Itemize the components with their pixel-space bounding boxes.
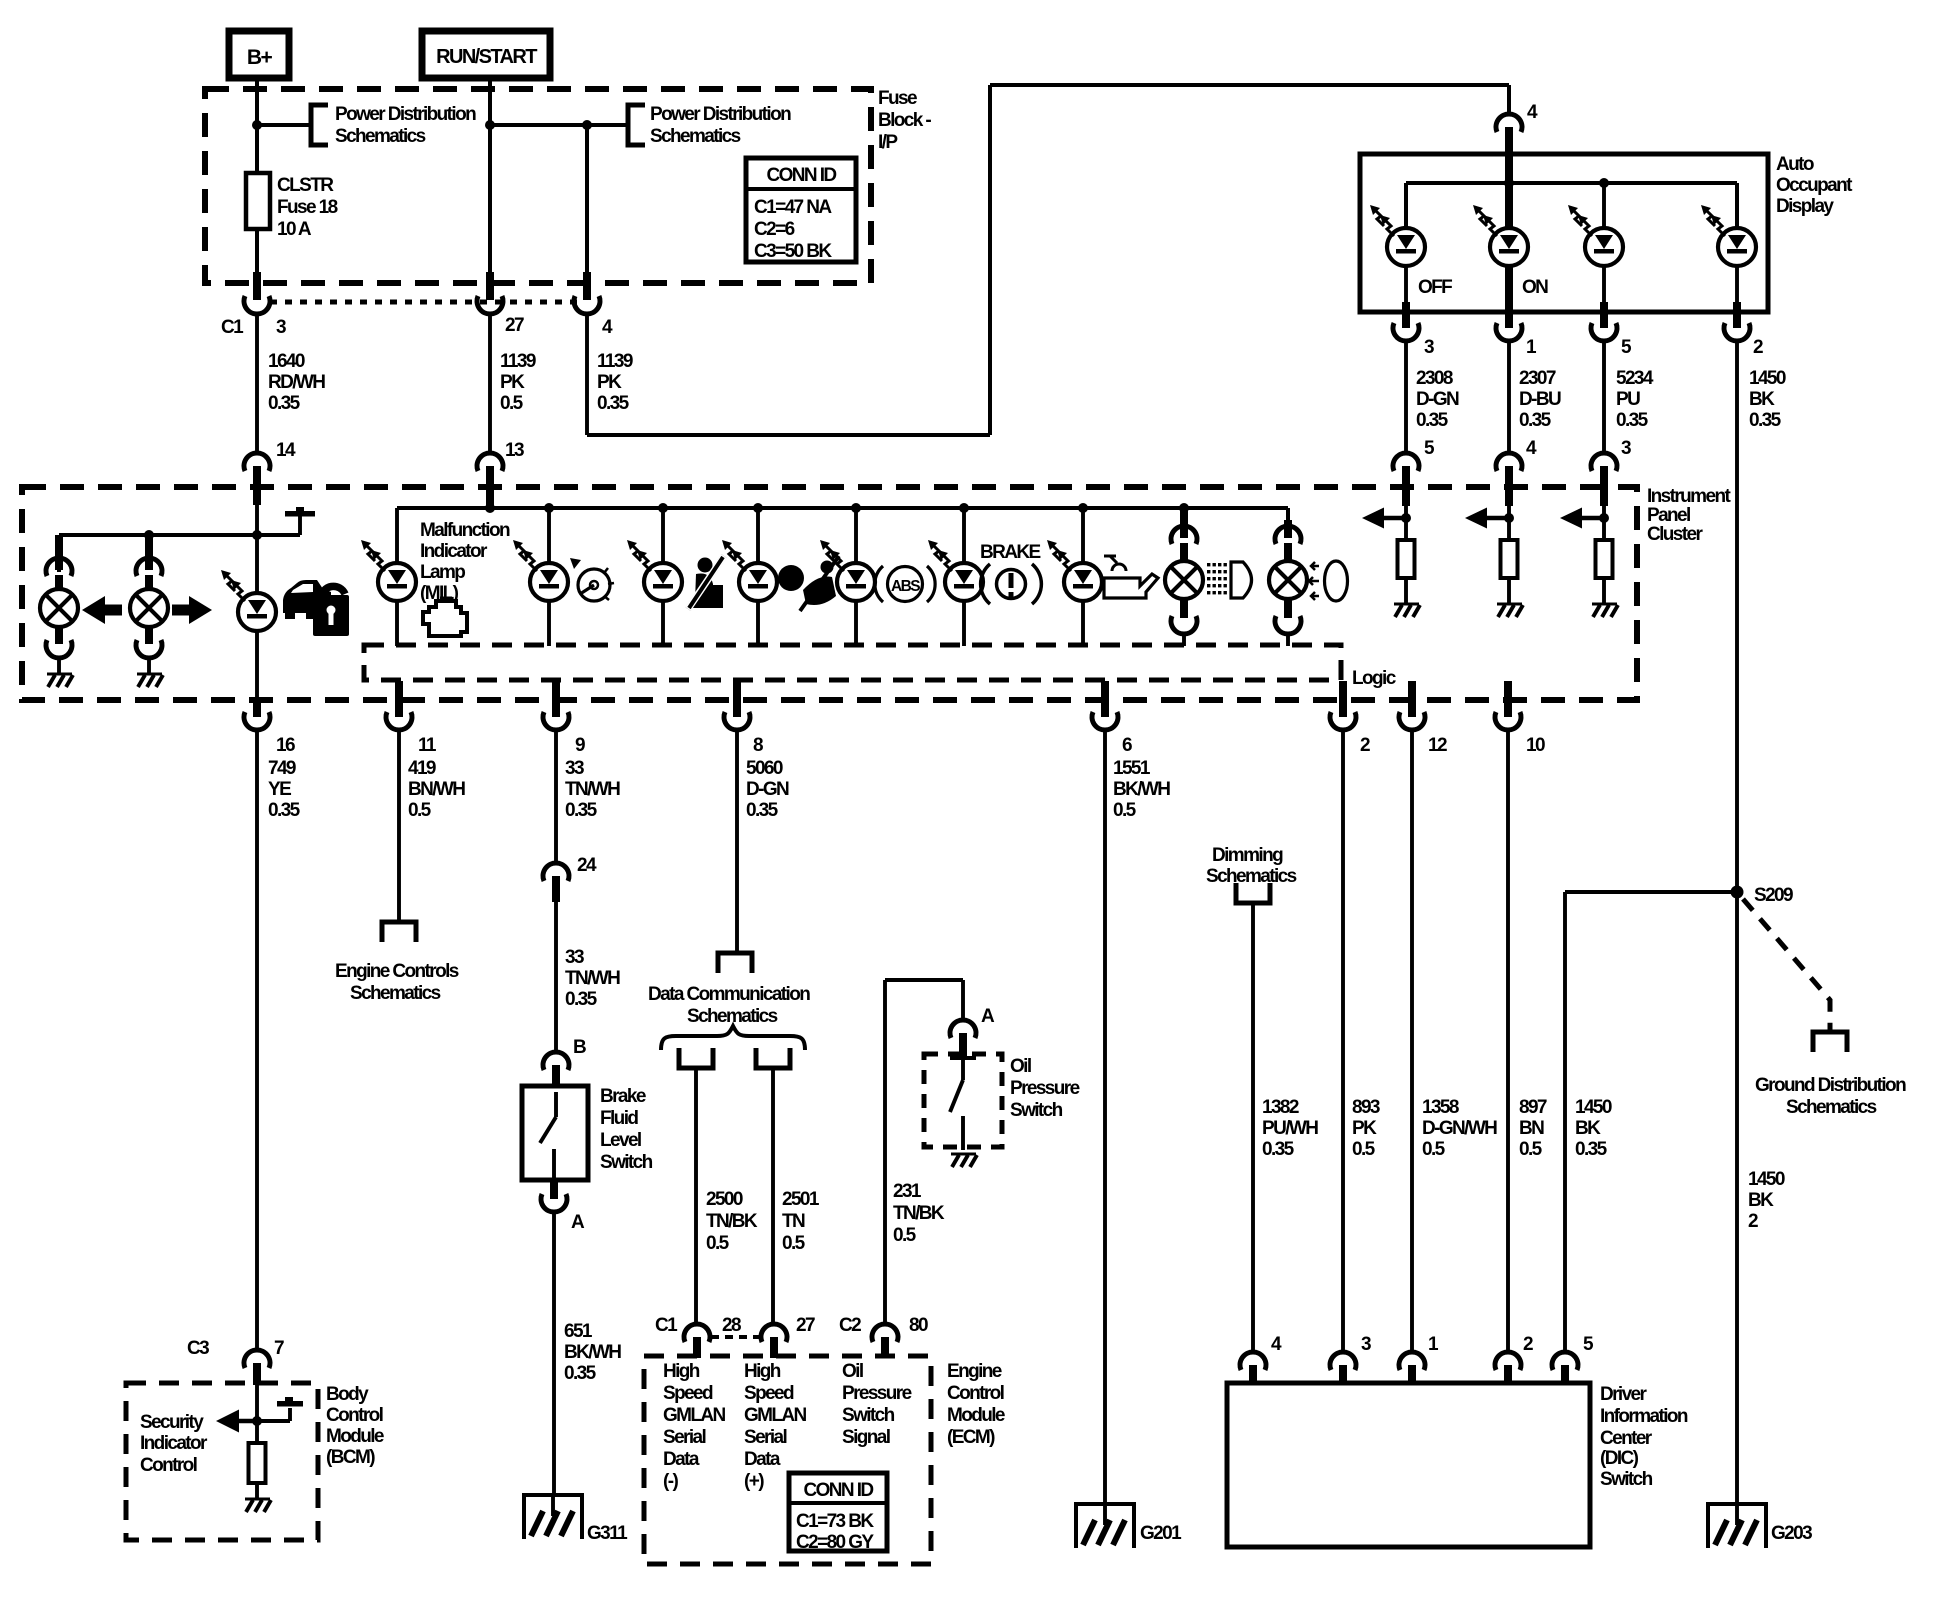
connector C1 pin 3 <box>221 296 286 338</box>
svg-text:0.35: 0.35 <box>1416 410 1449 431</box>
svg-text:2: 2 <box>1753 337 1763 358</box>
svg-text:Fluid: Fluid <box>600 1108 638 1129</box>
wire label 1450 BK 2 <box>1748 1169 1785 1232</box>
svg-text:3: 3 <box>1361 1334 1371 1355</box>
svg-text:C1=47 NA: C1=47 NA <box>754 197 832 218</box>
label Security Indicator Control <box>140 1412 208 1476</box>
svg-text:Body: Body <box>326 1384 369 1405</box>
off-page reference Dimming Schematics <box>1206 845 1297 903</box>
airbag icon <box>778 556 839 611</box>
svg-text:0.5: 0.5 <box>408 800 432 821</box>
cluster lamp feed wire <box>59 535 257 572</box>
main security wire through cluster pin 16 <box>244 697 295 1352</box>
svg-text:1640: 1640 <box>268 351 305 372</box>
svg-text:Indicator: Indicator <box>420 541 488 562</box>
connector C3 pin 7 BCM <box>244 1350 270 1385</box>
logic dashed box <box>364 645 1341 680</box>
security indicator LED <box>221 505 276 698</box>
svg-text:1358: 1358 <box>1422 1097 1459 1118</box>
connector pin 4 auto occupant display <box>1496 102 1538 156</box>
svg-text:C1: C1 <box>655 1315 678 1336</box>
svg-text:0.35: 0.35 <box>1616 410 1649 431</box>
svg-text:2308: 2308 <box>1416 368 1453 389</box>
svg-text:Schematics: Schematics <box>1786 1097 1877 1118</box>
svg-text:24: 24 <box>577 855 597 876</box>
label Driver Information Center DIC Switch <box>1600 1384 1688 1490</box>
svg-text:PK: PK <box>597 372 622 393</box>
svg-text:80: 80 <box>909 1315 928 1336</box>
svg-text:Signal: Signal <box>842 1427 890 1448</box>
ECM connector gang dashes <box>711 1335 760 1339</box>
wire label 5060 D-GN 0.35 <box>746 758 789 821</box>
svg-text:ON: ON <box>1522 277 1548 298</box>
svg-text:RD/WH: RD/WH <box>268 372 325 393</box>
svg-text:Control: Control <box>140 1455 197 1476</box>
connector pin 4 <box>574 272 613 338</box>
svg-text:G311: G311 <box>587 1523 628 1544</box>
engine control module dashed box <box>644 1356 931 1564</box>
svg-text:G203: G203 <box>1771 1523 1812 1544</box>
svg-text:TN: TN <box>782 1211 805 1232</box>
svg-text:Oil: Oil <box>842 1361 863 1382</box>
svg-text:10 A: 10 A <box>277 219 312 240</box>
svg-text:C3: C3 <box>187 1338 209 1359</box>
svg-text:0.5: 0.5 <box>893 1225 917 1246</box>
wire label 1551 BK/WH 0.5 <box>1113 758 1170 821</box>
svg-text:PK: PK <box>500 372 525 393</box>
wire 1139 PK 0.35 route to auto occupant display <box>587 85 1509 435</box>
wire third output of fuse block <box>585 125 589 274</box>
svg-text:I/P: I/P <box>878 132 898 153</box>
cluster pin 6 connector <box>1092 681 1132 756</box>
svg-text:S209: S209 <box>1754 885 1793 906</box>
LED seat belt <box>627 508 682 646</box>
svg-text:BN: BN <box>1519 1118 1544 1139</box>
svg-text:0.35: 0.35 <box>564 1363 597 1384</box>
svg-text:0.5: 0.5 <box>1422 1139 1446 1160</box>
driver information center switch box <box>1227 1383 1590 1547</box>
svg-text:(+): (+) <box>744 1471 764 1492</box>
svg-text:8: 8 <box>753 735 763 756</box>
splice S209 <box>1731 885 1794 906</box>
svg-text:C2=6: C2=6 <box>754 219 795 240</box>
LED indicator lamp 3 <box>1568 205 1623 266</box>
wire label 897 BN 0.5 <box>1519 1097 1547 1160</box>
connector DIC pin 3 <box>1330 1334 1371 1385</box>
svg-text:(DIC): (DIC) <box>1600 1448 1639 1469</box>
junction node on B+ wire <box>252 120 262 130</box>
svg-text:1450: 1450 <box>1749 368 1786 389</box>
wire label 749 YE 0.35 <box>268 758 301 821</box>
cluster pin 8 connector <box>724 681 763 756</box>
arrow dimming 5 <box>1362 508 1406 529</box>
wire from B+ down to fuse <box>255 78 259 173</box>
svg-text:Schematics: Schematics <box>335 126 426 147</box>
brake fluid level switch contacts <box>540 1092 556 1180</box>
junction node bus at third LED <box>1599 178 1609 188</box>
wire from RUN/START down <box>488 78 492 274</box>
CONN ID table ECM <box>789 1473 887 1553</box>
wire label 1358 D-GN/WH 0.5 <box>1422 1097 1497 1160</box>
LED brake <box>928 508 983 646</box>
svg-text:0.35: 0.35 <box>268 393 301 414</box>
svg-text:Power Distribution: Power Distribution <box>335 104 476 125</box>
BCM security indicator node <box>255 1385 259 1443</box>
svg-text:Switch: Switch <box>1600 1469 1653 1490</box>
LED oil pressure <box>1047 508 1102 646</box>
junction node dim feed 4 <box>1504 513 1514 523</box>
LED indicator ON <box>1473 205 1548 298</box>
wire splice S209 to ground G203 <box>1735 892 1739 1504</box>
brake fluid level switch box <box>522 1086 588 1180</box>
svg-text:5060: 5060 <box>746 758 783 779</box>
oil pressure switch signal wire 231 TN/BK <box>885 980 963 1324</box>
svg-text:Security: Security <box>140 1412 204 1433</box>
svg-text:Instrument: Instrument <box>1647 486 1731 507</box>
connector DIC pin 5 <box>1552 1334 1594 1385</box>
wire 1382 PU/WH to DIC pin 4 <box>1251 903 1255 1352</box>
junction node bus oil <box>1078 503 1088 513</box>
wire 1358 D-GN/WH to DIC pin 1 <box>1410 730 1414 1352</box>
connector DIC pin 2 <box>1495 1334 1533 1385</box>
wire 651 BK/WH to ground G311 <box>552 1212 556 1495</box>
wire 2501 TN <box>771 1068 775 1324</box>
svg-text:CLSTR: CLSTR <box>277 175 334 196</box>
svg-text:GMLAN: GMLAN <box>744 1405 807 1426</box>
junction node at third fuse-block wire <box>582 120 592 130</box>
svg-text:Engine: Engine <box>947 1361 1002 1382</box>
svg-text:1382: 1382 <box>1262 1097 1299 1118</box>
LED ABS <box>820 508 875 646</box>
brake warning icon <box>981 564 1042 604</box>
svg-text:27: 27 <box>796 1315 815 1336</box>
svg-text:0.35: 0.35 <box>268 800 301 821</box>
wire label 2500 TN/BK 0.5 <box>706 1189 758 1254</box>
svg-text:Brake: Brake <box>600 1086 646 1107</box>
connector DIC pin 1 <box>1399 1334 1439 1385</box>
svg-text:Data Communication: Data Communication <box>648 984 810 1005</box>
svg-text:6: 6 <box>1122 735 1132 756</box>
connector DIC pin 4 <box>1240 1334 1282 1385</box>
label Oil Pressure Switch <box>1010 1056 1080 1121</box>
label Auto Occupant Display <box>1776 154 1853 217</box>
svg-text:Auto: Auto <box>1776 154 1814 175</box>
junction node on RUN/START wire <box>485 120 495 130</box>
svg-text:Oil: Oil <box>1010 1056 1031 1077</box>
wire label 1382 PU/WH 0.35 <box>1262 1097 1318 1160</box>
junction node main wire at lamp feed <box>252 530 262 540</box>
right turn arrow icon <box>172 596 212 624</box>
wire RUN/START to power distribution tag <box>490 123 628 127</box>
wire label 2501 TN 0.5 <box>782 1189 820 1254</box>
svg-text:27: 27 <box>505 315 524 336</box>
svg-text:Fuse: Fuse <box>878 88 917 109</box>
seat belt icon <box>688 556 724 609</box>
svg-text:0.5: 0.5 <box>1113 800 1137 821</box>
MIL bus wire in cluster <box>397 466 1288 564</box>
svg-text:Center: Center <box>1600 1428 1653 1449</box>
engine icon <box>423 598 467 636</box>
headlamp icon <box>1309 561 1348 601</box>
svg-text:Control: Control <box>326 1405 383 1426</box>
label ECM input oil pressure switch signal <box>842 1361 912 1448</box>
body control module dashed box <box>126 1383 318 1540</box>
svg-text:Dimming: Dimming <box>1212 845 1283 866</box>
svg-text:Pressure: Pressure <box>842 1383 912 1404</box>
svg-text:1450: 1450 <box>1575 1097 1612 1118</box>
resistor dim 4 <box>1501 540 1518 604</box>
svg-text:(-): (-) <box>663 1471 678 1492</box>
svg-text:28: 28 <box>722 1315 741 1336</box>
label ECM input GMLAN plus <box>744 1361 807 1492</box>
svg-text:0.35: 0.35 <box>1519 410 1552 431</box>
svg-text:33: 33 <box>565 758 584 779</box>
svg-text:D-GN: D-GN <box>1416 389 1459 410</box>
svg-text:A: A <box>571 1212 585 1233</box>
svg-text:A: A <box>981 1006 995 1027</box>
connector C1 dotted gang line <box>270 300 577 305</box>
svg-text:C3=50 BK: C3=50 BK <box>754 241 832 262</box>
svg-text:Engine Controls: Engine Controls <box>335 961 459 982</box>
resistor dim 5 <box>1398 540 1415 604</box>
svg-text:PU: PU <box>1616 389 1640 410</box>
tap symbol to other circuits <box>259 507 315 535</box>
junction node bus at pin4 feed <box>1504 178 1514 188</box>
svg-text:3: 3 <box>276 317 286 338</box>
svg-text:651: 651 <box>564 1321 593 1342</box>
svg-text:Switch: Switch <box>1010 1100 1063 1121</box>
svg-text:BK: BK <box>1749 389 1775 410</box>
svg-text:Power Distribution: Power Distribution <box>650 104 791 125</box>
svg-text:TN/BK: TN/BK <box>706 1211 758 1232</box>
svg-text:Cluster: Cluster <box>1647 524 1703 545</box>
svg-text:(ECM): (ECM) <box>947 1427 995 1448</box>
svg-text:Module: Module <box>947 1405 1005 1426</box>
svg-text:0.35: 0.35 <box>746 800 779 821</box>
CONN ID table fuse block <box>746 158 856 262</box>
svg-text:Logic: Logic <box>1352 668 1397 689</box>
svg-text:BK/WH: BK/WH <box>1113 779 1170 800</box>
wire label 2308 D-GN 0.35 <box>1416 368 1459 431</box>
BCM tap arrow symbol <box>257 1397 303 1421</box>
svg-text:Module: Module <box>326 1426 384 1447</box>
svg-text:PU/WH: PU/WH <box>1262 1118 1318 1139</box>
LED indicator lamp 4 <box>1701 205 1756 266</box>
dashed wire to ground distribution <box>1743 899 1830 1030</box>
svg-text:12: 12 <box>1428 735 1447 756</box>
svg-text:893: 893 <box>1352 1097 1380 1118</box>
svg-text:ABS: ABS <box>891 578 920 595</box>
svg-text:G201: G201 <box>1140 1523 1182 1544</box>
svg-text:9: 9 <box>575 735 585 756</box>
svg-text:Block -: Block - <box>878 110 931 131</box>
svg-text:C1=73 BK: C1=73 BK <box>796 1511 874 1532</box>
svg-text:2501: 2501 <box>782 1189 820 1210</box>
junction node bus ABS <box>851 503 861 513</box>
junction node bus seat belt <box>658 503 668 513</box>
svg-text:B: B <box>573 1037 586 1058</box>
label BRAKE <box>980 542 1040 563</box>
svg-text:Malfunction: Malfunction <box>420 520 510 541</box>
wire label 651 BK/WH 0.35 <box>564 1321 621 1384</box>
main security wire label C3 7 <box>187 1338 284 1359</box>
off-page bracket GMLAN minus <box>679 1048 713 1068</box>
svg-text:Speed: Speed <box>744 1383 794 1404</box>
off-page reference Power Distribution Schematics (right) <box>628 104 791 147</box>
svg-text:Driver: Driver <box>1600 1384 1648 1405</box>
svg-text:BK: BK <box>1575 1118 1601 1139</box>
svg-text:D-BU: D-BU <box>1519 389 1561 410</box>
svg-text:Lamp: Lamp <box>420 562 465 583</box>
wire to brake fluid level switch pin B <box>554 900 558 1053</box>
svg-text:1551: 1551 <box>1113 758 1151 779</box>
label Fuse Block I/P <box>878 88 931 153</box>
connector AOD pin 5 <box>1591 323 1632 358</box>
cluster pin 10 connector <box>1495 681 1545 756</box>
svg-text:0.5: 0.5 <box>500 393 524 414</box>
wire label 231 TN/BK 0.5 <box>893 1181 945 1246</box>
svg-text:Schematics: Schematics <box>350 983 441 1004</box>
fuse CLSTR Fuse 18 10 A <box>246 173 338 240</box>
LED indicator OFF <box>1370 205 1452 298</box>
LED speedometer <box>513 508 568 646</box>
wire label 893 PK 0.5 <box>1352 1097 1380 1160</box>
wire 2500 TN/BK <box>694 1068 698 1324</box>
wire label 419 BN/WH 0.5 <box>408 758 465 821</box>
wire label 1450 BK 0.35 <box>1749 368 1786 431</box>
fuse block I/P dashed box <box>205 89 871 283</box>
svg-text:3: 3 <box>1621 438 1631 459</box>
wire label 1450 BK 0.35 DIC <box>1575 1097 1612 1160</box>
oil pressure switch dashed box <box>924 1054 1002 1147</box>
svg-text:Panel: Panel <box>1647 505 1690 526</box>
ground BCM internal <box>245 1499 271 1512</box>
wire below fuse to connector C1-3 <box>255 229 259 300</box>
dimmed feed pin 5 with arrow and resistor <box>1402 466 1410 540</box>
wire 1450 BK DIC pin 5 to splice S209 <box>1565 892 1737 1352</box>
svg-text:D-GN: D-GN <box>746 779 789 800</box>
svg-text:TN/WH: TN/WH <box>565 968 620 989</box>
wire 897 BN to DIC pin 2 <box>1506 730 1510 1352</box>
cluster pin 2 connector <box>1330 681 1370 756</box>
svg-text:0.35: 0.35 <box>597 393 630 414</box>
junction node bus speedometer <box>544 503 554 513</box>
cluster pin 12 connector <box>1399 681 1447 756</box>
oil pressure switch contacts <box>950 1058 976 1150</box>
svg-text:0.35: 0.35 <box>565 800 598 821</box>
ABS icon <box>875 566 935 602</box>
headlamp indicator lamp <box>1269 508 1307 646</box>
svg-text:Data: Data <box>744 1449 781 1470</box>
power terminal RUN/START <box>422 31 550 78</box>
svg-text:CONN ID: CONN ID <box>766 165 836 186</box>
LED airbag <box>722 508 777 646</box>
ground dim 4 <box>1497 604 1523 617</box>
svg-text:C2=80 GY: C2=80 GY <box>796 1532 874 1553</box>
svg-text:5234: 5234 <box>1616 368 1654 389</box>
instrument panel cluster dashed box <box>22 487 1637 700</box>
svg-text:11: 11 <box>418 735 437 756</box>
svg-text:GMLAN: GMLAN <box>663 1405 726 1426</box>
svg-text:0.5: 0.5 <box>706 1233 730 1254</box>
resistor dim 3 <box>1596 540 1613 604</box>
wire to power distribution tag <box>257 123 311 127</box>
connector ECM C1 pin 28 <box>655 1315 741 1358</box>
svg-text:0.35: 0.35 <box>1749 410 1782 431</box>
svg-text:1450: 1450 <box>1748 1169 1785 1190</box>
wires AOD to cluster pins <box>1406 341 1604 453</box>
label Brake Fluid Level Switch <box>600 1086 653 1173</box>
svg-text:0.35: 0.35 <box>565 989 598 1010</box>
svg-text:BRAKE: BRAKE <box>980 542 1040 563</box>
svg-text:Fuse 18: Fuse 18 <box>277 197 338 218</box>
svg-text:14: 14 <box>276 440 296 461</box>
connector AOD pin 2 <box>1724 323 1763 358</box>
svg-text:10: 10 <box>1526 735 1545 756</box>
svg-text:749: 749 <box>268 758 296 779</box>
svg-text:13: 13 <box>505 440 524 461</box>
svg-text:3: 3 <box>1424 337 1434 358</box>
vehicle security icon <box>283 580 349 636</box>
ground G201 <box>1076 1504 1182 1548</box>
svg-text:Display: Display <box>1776 196 1834 217</box>
wire 33 TN/WH to connector 24 <box>554 730 558 864</box>
junction node bus airbag <box>753 503 763 513</box>
svg-text:0.35: 0.35 <box>1262 1139 1295 1160</box>
svg-text:2: 2 <box>1360 735 1370 756</box>
auto occupant display supply bus <box>1406 154 1737 229</box>
svg-text:1139: 1139 <box>500 351 536 372</box>
connector pin 13 instrument cluster <box>477 440 524 508</box>
turn signal lamp left <box>40 535 78 687</box>
wire 1139 PK to cluster pin 13 <box>488 314 492 454</box>
junction node bus fog lamp <box>1179 503 1189 513</box>
svg-text:Control: Control <box>947 1383 1004 1404</box>
svg-text:16: 16 <box>276 735 295 756</box>
svg-text:TN/WH: TN/WH <box>565 779 620 800</box>
connector B brake switch <box>543 1037 586 1088</box>
off-page bracket GMLAN plus <box>756 1048 790 1068</box>
label Instrument Panel Cluster <box>1647 486 1731 545</box>
wire label 33 TN/WH 0.35 upper <box>565 758 620 821</box>
svg-text:C2: C2 <box>839 1315 861 1336</box>
connector cluster pin 5 <box>1393 438 1435 506</box>
svg-text:BK: BK <box>1748 1190 1774 1211</box>
resistor BCM <box>249 1443 266 1499</box>
wire label 33 TN/WH 0.35 lower <box>565 947 620 1010</box>
cluster pin 11 connector <box>386 681 437 756</box>
AOD LED output wires <box>1406 266 1737 328</box>
svg-text:(BCM): (BCM) <box>326 1447 375 1468</box>
wire 1640 RD/WH to cluster pin 14 <box>255 314 259 454</box>
svg-text:897: 897 <box>1519 1097 1547 1118</box>
svg-text:BN/WH: BN/WH <box>408 779 465 800</box>
brace data communication <box>661 1026 805 1050</box>
svg-text:Data: Data <box>663 1449 700 1470</box>
svg-text:Switch: Switch <box>842 1405 895 1426</box>
wire label 2307 D-BU 0.35 <box>1519 368 1561 431</box>
auto occupant display box <box>1360 154 1768 312</box>
connector AOD pin 1 <box>1496 323 1537 358</box>
malfunction indicator lamp LED <box>361 540 416 646</box>
svg-text:BK/WH: BK/WH <box>564 1342 621 1363</box>
svg-text:TN/BK: TN/BK <box>893 1203 945 1224</box>
ground G203 <box>1708 1504 1812 1548</box>
junction node BCM <box>252 1416 262 1426</box>
svg-text:Switch: Switch <box>600 1152 653 1173</box>
off-page reference Power Distribution Schematics (left) <box>311 104 476 147</box>
off-page reference Ground Distribution Schematics <box>1755 1032 1906 1118</box>
